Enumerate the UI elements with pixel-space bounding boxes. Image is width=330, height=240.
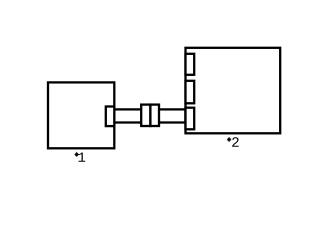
port 3 on box *2 left edge: [186, 108, 195, 130]
label *2 asterisk: [227, 137, 231, 142]
label *1 asterisk: [75, 152, 79, 157]
port 1 on box *2 left edge: [186, 54, 195, 75]
label *1 digit 1: [78, 152, 85, 161]
connector right half: [150, 105, 159, 126]
component box *2: [186, 48, 281, 134]
connector left half: [141, 105, 150, 126]
port on box *1 right edge: [106, 107, 115, 127]
component box *1: [48, 82, 114, 148]
wire: [114, 109, 185, 122]
label *2 digit 2: [232, 137, 239, 147]
port 2 on box *2 left edge: [186, 81, 195, 104]
